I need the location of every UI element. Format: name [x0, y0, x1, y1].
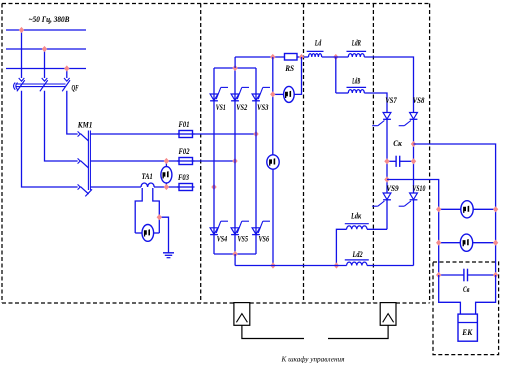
- wire meter P3 left: [439, 242, 461, 244]
- thyristor VS6: [252, 221, 270, 234]
- thyristor VS8: [399, 113, 418, 126]
- wire Ld2 to VS10 column: [367, 265, 414, 267]
- svg-text:F02: F02: [178, 146, 190, 156]
- fuse F02: [177, 146, 195, 165]
- wire load left down: [439, 275, 461, 314]
- commutating capacitor Ck: [387, 156, 414, 167]
- svg-text:VS3: VS3: [257, 102, 269, 112]
- svg-text:ЕК: ЕК: [461, 328, 472, 337]
- node row1 to VS3 column: [253, 131, 258, 137]
- wire meter Pf right: [473, 208, 495, 210]
- choke LdR: [347, 51, 367, 57]
- svg-text:TA1: TA1: [142, 171, 153, 181]
- thyristor VS2: [231, 87, 249, 100]
- node Ldk tap on negative bus: [334, 262, 339, 268]
- svg-text:LdВ: LdВ: [352, 76, 361, 86]
- wire QF pole1 to row3: [22, 91, 78, 187]
- wire bottom bus dropper: [234, 254, 236, 266]
- svg-text:VS4: VS4: [217, 233, 228, 243]
- wire L1 drop to QF pole 1: [21, 30, 23, 78]
- choke LdB: [347, 87, 367, 93]
- node Cv right: [493, 272, 498, 278]
- connector X1 to control cabinet: [234, 303, 250, 326]
- choke Ld2: [345, 260, 369, 266]
- svg-text:F03: F03: [177, 172, 189, 182]
- wire phase line L1: [6, 29, 86, 31]
- node row2 to VS2 column: [232, 158, 237, 164]
- svg-text:VS8: VS8: [413, 95, 425, 105]
- shunt resistor RS: [285, 54, 298, 61]
- frame: dashed bottom border right of connector X2: [396, 302, 430, 304]
- wire VS7 column mid: [386, 119, 388, 193]
- wire rectifier top bus: [214, 67, 256, 69]
- wire row3 segment TA1 to F03: [154, 186, 179, 188]
- node Cv left: [436, 272, 441, 278]
- wire rectifier bottom bus: [214, 253, 256, 255]
- svg-text:RS: RS: [284, 63, 294, 73]
- svg-text:К шкафу управления: К шкафу управления: [281, 355, 345, 364]
- wire mV-meter left stub: [273, 93, 284, 95]
- svg-text:VS9: VS9: [386, 183, 399, 193]
- choke Ld: [307, 51, 324, 57]
- wire phase line L2: [6, 48, 86, 50]
- node P3 right: [493, 240, 498, 246]
- frame: dashed load box: [433, 262, 499, 355]
- thyristor VS10: [399, 193, 418, 206]
- node PV1 on row2: [164, 158, 169, 164]
- wire DC+ rail to shunt: [235, 56, 284, 58]
- wire negative bus to Ld2: [235, 265, 347, 267]
- svg-text:Ld: Ld: [314, 38, 322, 48]
- current transformer TA1 primary: [141, 183, 154, 187]
- wire L2 drop to QF pole 2: [44, 49, 46, 78]
- ground: [163, 253, 174, 258]
- frame: dashed bottom border between connectors: [250, 302, 380, 304]
- wire row1 KM1 to fuse F01: [91, 133, 179, 135]
- wire voltmeter to negative bus: [272, 169, 274, 265]
- fuse F01: [177, 119, 195, 138]
- wire mV-meter left drop: [272, 57, 274, 155]
- wire TA1 secondary left: [135, 188, 142, 233]
- node bottom bus tap: [232, 251, 237, 257]
- contactor KM1 (3-pole): [78, 131, 92, 197]
- wire row2 to VS2 column: [193, 160, 236, 162]
- thyristor VS4: [210, 221, 228, 234]
- svg-text:VS1: VS1: [216, 102, 226, 112]
- node RS input: [270, 54, 275, 60]
- wire LdR to VS8 column: [364, 57, 413, 113]
- wire connector X1 lead: [242, 325, 304, 338]
- svg-text:VS10: VS10: [412, 183, 426, 193]
- wire TA1 secondary right: [153, 188, 160, 233]
- frame: outer dashed top border: [2, 3, 430, 5]
- millivoltmeter P2 across RS: [284, 86, 295, 102]
- svg-text:КМ1: КМ1: [77, 119, 93, 129]
- svg-text:F01: F01: [178, 119, 190, 129]
- wire meter PA1 right stub: [154, 232, 160, 234]
- node L1 tap: [19, 27, 24, 33]
- wire load right down: [476, 275, 496, 314]
- node voltmeter bottom: [270, 262, 275, 268]
- circuit breaker QF (3-pole): [14, 78, 71, 91]
- wire VS8 column mid: [413, 119, 415, 193]
- svg-text:Ld2: Ld2: [352, 249, 363, 259]
- node Pf right: [493, 206, 498, 212]
- wire load negative: [387, 180, 439, 276]
- node L2 tap: [42, 46, 47, 52]
- wire Ld junction to LdR: [322, 56, 349, 58]
- wire row1 to VS3 column: [193, 133, 257, 135]
- frame: dashed divider rectifier section: [303, 4, 305, 304]
- frame: dashed right border: [429, 4, 431, 304]
- node TA1 ground tap: [157, 214, 162, 220]
- wire Ldk left leg: [336, 229, 346, 265]
- thyristor VS5: [231, 221, 249, 234]
- frame: outer dashed left border: [1, 4, 3, 304]
- node PV1 on row3: [164, 184, 169, 190]
- fuse F03: [177, 172, 195, 191]
- voltmeter PV2 on DC link: [267, 155, 279, 169]
- wire meter P3 right: [473, 242, 496, 244]
- wire meter PV1 bottom stub: [165, 183, 167, 187]
- wire load positive: [414, 144, 496, 275]
- voltmeter PV1 between phases: [161, 167, 172, 183]
- node L3 tap: [64, 65, 69, 71]
- thyristor VS7: [372, 113, 391, 126]
- thyristor VS1: [210, 87, 228, 100]
- frame: dashed divider input section: [200, 4, 202, 304]
- wire row3 KM1 to TA1: [91, 186, 141, 188]
- wire LdB riser: [335, 57, 337, 93]
- svg-text:LdR: LdR: [351, 38, 361, 48]
- node RS output: [299, 54, 304, 60]
- node Ld-LdR junction: [333, 54, 338, 60]
- voltmeter P3: [460, 234, 472, 251]
- node VS8 output tap: [411, 141, 416, 147]
- wire Ldk to VS9: [367, 228, 387, 230]
- wire connector X2 lead: [328, 325, 388, 338]
- node top bus tap: [232, 65, 237, 71]
- connector X2 to control cabinet: [380, 303, 396, 326]
- svg-text:VS6: VS6: [259, 233, 270, 243]
- svg-text:~50 Гц, 380В: ~50 Гц, 380В: [29, 15, 71, 24]
- wire VS1 column: [213, 68, 215, 254]
- frame: dashed bottom border left of connector X1: [2, 302, 234, 304]
- wire VS9 cathode: [386, 200, 388, 230]
- wire QF pole3 to row1: [67, 91, 78, 134]
- frame: dashed divider choke section: [372, 4, 374, 304]
- node Pf left: [436, 206, 441, 212]
- wire VS3 column: [255, 68, 257, 254]
- thyristor VS9: [372, 193, 391, 206]
- node mV-meter left: [270, 91, 275, 97]
- wire phase line L3: [6, 68, 86, 70]
- wire VS10 cathode: [413, 200, 415, 266]
- thyristor VS3: [252, 87, 270, 100]
- svg-text:VS2: VS2: [236, 102, 248, 112]
- wire row2 KM1 to fuse F02: [91, 160, 179, 162]
- svg-text:VS5: VS5: [238, 233, 249, 243]
- wire VS2 column: [234, 68, 236, 254]
- wire meter PA1 left stub: [135, 232, 142, 234]
- svg-text:VS7: VS7: [385, 95, 397, 105]
- wire meter Pf left: [439, 208, 461, 210]
- compensating capacitor Cv: [439, 269, 496, 282]
- svg-text:Cк: Cк: [393, 138, 402, 148]
- wire L3 drop to QF pole 3: [66, 69, 68, 79]
- ammeter PA1 (TA1 secondary): [142, 225, 154, 242]
- wire shunt to Ld: [297, 56, 309, 58]
- wire LdB to VS7 column: [364, 93, 387, 113]
- node Ck right: [411, 158, 416, 164]
- frequency meter Pf: [461, 201, 473, 218]
- node VS7 output tap: [384, 176, 389, 182]
- wire ground branch: [159, 217, 168, 252]
- node Ck left: [384, 158, 389, 164]
- wire top bus riser: [234, 57, 236, 68]
- wire riser to LdB: [336, 92, 349, 94]
- svg-text:Cв: Cв: [463, 284, 470, 294]
- svg-text:QF: QF: [72, 83, 79, 92]
- wire mV-meter right loop: [294, 57, 301, 94]
- wire meter PV1 top stub: [165, 161, 167, 167]
- node row3 to VS1 column: [211, 184, 216, 190]
- node P3 left: [436, 240, 441, 246]
- choke Ldk: [345, 224, 369, 230]
- wire QF pole2 to row2: [45, 91, 78, 161]
- svg-text:Ldк: Ldк: [350, 210, 361, 220]
- induction furnace EK: [458, 314, 477, 341]
